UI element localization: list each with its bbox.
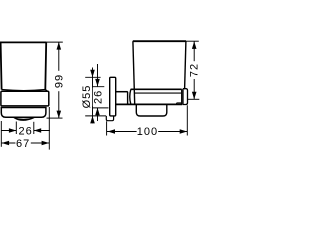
wall stub xyxy=(106,116,113,121)
svg-text:99: 99 xyxy=(54,74,66,88)
dim 99 ext bottom xyxy=(47,117,63,119)
SIDE VIEW xyxy=(106,41,187,121)
dim 26 front ext right xyxy=(33,122,35,134)
svg-text:72: 72 xyxy=(189,63,201,77)
arrow 26S bottom xyxy=(95,108,100,116)
arrow 72 top xyxy=(192,41,197,49)
text 100 xyxy=(137,126,159,136)
dim 26 front ext left xyxy=(15,122,17,135)
text 67 xyxy=(15,138,30,148)
dim 99 ext top xyxy=(46,41,62,43)
saucer lower glass front view xyxy=(1,108,46,118)
ring top side view xyxy=(131,88,182,90)
text 26 side xyxy=(93,88,102,107)
arrow O55 top xyxy=(90,70,95,78)
ring right edge xyxy=(181,89,183,104)
arm xyxy=(116,91,128,93)
dim O55 exts xyxy=(85,77,106,116)
glass side left edge xyxy=(133,41,135,104)
wall plate xyxy=(110,77,116,116)
dim 72 line xyxy=(193,41,195,99)
dim 72 ext top xyxy=(186,40,199,42)
dim O55 line xyxy=(92,68,94,124)
dim 26 side exts xyxy=(92,87,109,108)
arrow 99 bottom xyxy=(57,111,62,119)
arrow 100 right xyxy=(180,129,187,134)
ring left joint xyxy=(128,89,131,104)
glass front bottom curve xyxy=(2,90,48,92)
ring bottom side view xyxy=(116,103,182,105)
dim 67 ext left xyxy=(0,121,2,147)
cap front end xyxy=(183,89,188,105)
glass front view xyxy=(0,42,46,89)
svg-text:Ø55: Ø55 xyxy=(81,85,93,109)
arrow 26F left xyxy=(9,128,16,133)
svg-text:100: 100 xyxy=(137,126,158,138)
arrow 67 right xyxy=(42,141,50,146)
dim 100 exts xyxy=(107,105,188,135)
holder ring front view xyxy=(1,91,49,106)
ring inner lip xyxy=(177,103,182,104)
arrow O55 bottom xyxy=(90,116,95,124)
svg-text:26: 26 xyxy=(18,125,32,137)
text 72 xyxy=(189,61,199,79)
svg-text:67: 67 xyxy=(16,138,30,150)
arrow 26S top xyxy=(95,79,100,87)
dim 26 front leaders xyxy=(1,130,50,132)
ring inner line xyxy=(135,92,182,94)
arrow 67 left xyxy=(2,141,10,146)
dim 99 line xyxy=(58,42,60,118)
dim 26 side line segs xyxy=(97,64,99,121)
dim 67 line xyxy=(2,142,50,144)
glass lower side view xyxy=(136,104,167,116)
dim 100 line xyxy=(107,131,187,133)
glass side rim xyxy=(133,40,186,42)
glass foot arc xyxy=(14,118,34,121)
arrow 99 top xyxy=(57,42,62,50)
glass side right edge xyxy=(185,41,186,89)
dim 72 ext bottom xyxy=(188,98,200,100)
arrow 100 left xyxy=(108,129,115,134)
arrow 72 bottom xyxy=(192,92,197,100)
svg-text:26: 26 xyxy=(92,90,104,104)
text 99 xyxy=(54,71,64,91)
arrow 26F right xyxy=(34,128,41,133)
dim 67 ext right xyxy=(48,107,50,150)
